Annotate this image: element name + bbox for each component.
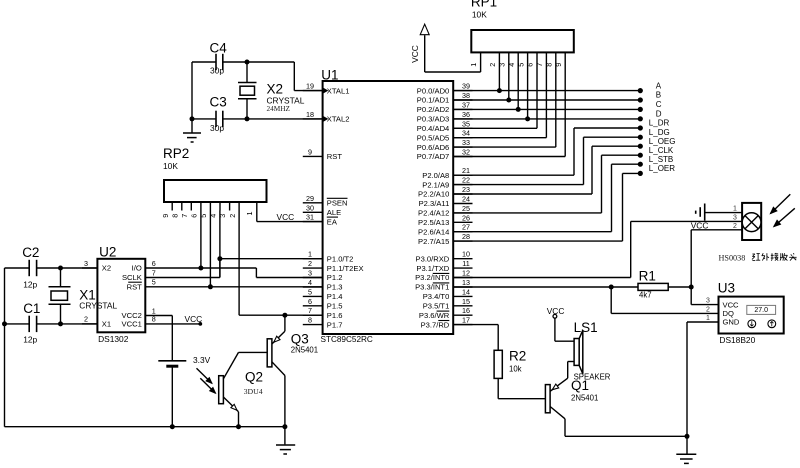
svg-text:U1: U1 xyxy=(321,68,338,83)
svg-text:CRYSTAL: CRYSTAL xyxy=(79,300,117,310)
svg-text:27: 27 xyxy=(462,223,470,232)
svg-text:P3.1/TXD: P3.1/TXD xyxy=(416,264,449,273)
svg-text:2N5401: 2N5401 xyxy=(571,393,598,402)
svg-text:4: 4 xyxy=(308,278,312,287)
svg-text:7: 7 xyxy=(180,214,189,218)
svg-text:P0.4/AD4: P0.4/AD4 xyxy=(417,124,450,133)
svg-text:P2.7/A15: P2.7/A15 xyxy=(418,237,449,246)
svg-text:P3.0/RXD: P3.0/RXD xyxy=(416,254,450,263)
svg-text:17: 17 xyxy=(462,316,470,325)
svg-text:10k: 10k xyxy=(509,365,522,374)
svg-text:6: 6 xyxy=(190,214,199,218)
svg-text:L_DR: L_DR xyxy=(649,119,670,128)
svg-text:3: 3 xyxy=(308,269,312,278)
svg-text:2: 2 xyxy=(308,259,312,268)
svg-text:6: 6 xyxy=(152,259,156,268)
svg-text:L_OER: L_OER xyxy=(649,164,675,173)
svg-text:9: 9 xyxy=(554,63,563,67)
svg-text:13: 13 xyxy=(462,278,470,287)
svg-text:21: 21 xyxy=(462,166,470,175)
svg-text:P1.3: P1.3 xyxy=(327,283,343,292)
svg-text:L_OEG: L_OEG xyxy=(649,137,676,146)
svg-text:36: 36 xyxy=(462,110,470,119)
svg-text:22: 22 xyxy=(462,176,470,185)
svg-text:26: 26 xyxy=(462,213,470,222)
svg-text:12p: 12p xyxy=(23,335,37,345)
svg-text:X2: X2 xyxy=(267,82,284,97)
svg-text:VCC: VCC xyxy=(277,212,295,222)
svg-text:Q2: Q2 xyxy=(245,370,263,385)
svg-text:ALE: ALE xyxy=(327,208,341,217)
svg-text:27.0: 27.0 xyxy=(754,307,768,314)
svg-text:7: 7 xyxy=(152,268,156,277)
svg-text:P2.4/A12: P2.4/A12 xyxy=(418,209,449,218)
svg-text:P0.3/AD3: P0.3/AD3 xyxy=(417,115,450,124)
svg-text:B: B xyxy=(656,91,661,100)
svg-text:P0.5/AD5: P0.5/AD5 xyxy=(417,133,450,142)
svg-text:R1: R1 xyxy=(639,269,656,284)
svg-text:4: 4 xyxy=(507,63,516,67)
svg-text:X1: X1 xyxy=(102,320,111,329)
svg-text:11: 11 xyxy=(462,259,469,268)
svg-text:R2: R2 xyxy=(509,348,526,363)
svg-text:24: 24 xyxy=(462,195,470,204)
svg-text:P3.3/INT1: P3.3/INT1 xyxy=(415,283,449,292)
svg-text:P2.1/A9: P2.1/A9 xyxy=(422,180,449,189)
svg-text:3: 3 xyxy=(733,214,737,221)
svg-text:2: 2 xyxy=(488,63,497,67)
svg-text:VCC1: VCC1 xyxy=(122,320,142,329)
svg-text:RP2: RP2 xyxy=(163,146,189,161)
svg-text:7: 7 xyxy=(308,306,312,315)
svg-text:P2.0/A8: P2.0/A8 xyxy=(422,171,449,180)
svg-text:RST: RST xyxy=(327,152,343,161)
svg-text:A: A xyxy=(656,81,662,90)
svg-text:2: 2 xyxy=(228,214,237,218)
svg-text:SCLK: SCLK xyxy=(122,273,142,282)
svg-text:5: 5 xyxy=(308,287,312,296)
svg-text:37: 37 xyxy=(462,100,470,109)
svg-text:19: 19 xyxy=(306,82,314,91)
svg-text:C3: C3 xyxy=(210,95,227,110)
svg-text:1: 1 xyxy=(469,63,478,67)
svg-text:10: 10 xyxy=(462,250,470,259)
svg-text:34: 34 xyxy=(462,129,470,138)
svg-text:10K: 10K xyxy=(163,161,178,171)
svg-text:23: 23 xyxy=(462,185,470,194)
svg-text:2: 2 xyxy=(84,315,88,324)
svg-text:RP1: RP1 xyxy=(471,0,497,9)
svg-text:PSEN: PSEN xyxy=(327,199,348,208)
svg-text:25: 25 xyxy=(462,204,470,213)
svg-text:Q1: Q1 xyxy=(571,378,589,393)
svg-text:P3.7/RD: P3.7/RD xyxy=(421,320,450,329)
svg-text:P1.1/T2EX: P1.1/T2EX xyxy=(327,264,364,273)
svg-text:30: 30 xyxy=(306,203,314,212)
svg-text:VCC: VCC xyxy=(723,300,740,309)
svg-text:RST: RST xyxy=(127,283,143,292)
svg-text:12: 12 xyxy=(462,269,470,278)
svg-text:L_STB: L_STB xyxy=(649,155,673,164)
svg-text:1: 1 xyxy=(706,315,710,322)
svg-text:DS1302: DS1302 xyxy=(98,334,129,344)
svg-text:C4: C4 xyxy=(210,41,228,56)
svg-text:3.3V: 3.3V xyxy=(193,355,211,365)
svg-text:LS1: LS1 xyxy=(574,320,598,335)
svg-text:8: 8 xyxy=(308,316,312,325)
svg-text:P0.7/AD7: P0.7/AD7 xyxy=(417,152,450,161)
svg-text:35: 35 xyxy=(462,119,470,128)
svg-text:P3.2/INT0: P3.2/INT0 xyxy=(415,273,449,282)
svg-text:GND: GND xyxy=(723,318,740,327)
svg-text:D: D xyxy=(656,110,662,119)
svg-text:5: 5 xyxy=(516,63,525,67)
svg-text:1: 1 xyxy=(308,250,312,259)
svg-text:P2.5/A13: P2.5/A13 xyxy=(418,218,449,227)
svg-text:STC89C52RC: STC89C52RC xyxy=(321,335,373,344)
svg-text:2N5401: 2N5401 xyxy=(291,345,318,354)
svg-text:VCC: VCC xyxy=(691,221,709,231)
svg-text:L_CLK: L_CLK xyxy=(649,146,674,155)
svg-text:P3.5/T1: P3.5/T1 xyxy=(423,302,450,311)
svg-text:X2: X2 xyxy=(102,264,111,273)
svg-text:3: 3 xyxy=(84,259,88,268)
svg-text:9: 9 xyxy=(161,214,170,218)
svg-text:30p: 30p xyxy=(210,123,224,133)
svg-text:P0.0/AD0: P0.0/AD0 xyxy=(417,86,450,95)
svg-text:8: 8 xyxy=(171,214,180,218)
svg-text:15: 15 xyxy=(462,297,470,306)
svg-text:14: 14 xyxy=(462,287,470,296)
svg-text:3DU4: 3DU4 xyxy=(244,387,263,396)
svg-text:HS0038: HS0038 xyxy=(719,254,746,263)
svg-text:6: 6 xyxy=(526,63,535,67)
svg-text:31: 31 xyxy=(306,213,314,222)
svg-text:2: 2 xyxy=(733,223,737,230)
svg-text:33: 33 xyxy=(462,138,470,147)
svg-text:C2: C2 xyxy=(22,245,39,260)
svg-text:U2: U2 xyxy=(99,245,116,260)
svg-text:4k7: 4k7 xyxy=(639,291,652,300)
svg-text:8: 8 xyxy=(545,63,554,67)
svg-text:P2.2/A10: P2.2/A10 xyxy=(418,190,449,199)
svg-text:P1.2: P1.2 xyxy=(327,273,343,282)
svg-text:8: 8 xyxy=(152,315,156,324)
svg-text:5: 5 xyxy=(152,278,156,287)
svg-text:P1.4: P1.4 xyxy=(327,292,343,301)
svg-text:39: 39 xyxy=(462,82,470,91)
svg-text:9: 9 xyxy=(308,147,312,156)
svg-text:6: 6 xyxy=(308,297,312,306)
svg-text:P0.1/AD1: P0.1/AD1 xyxy=(417,96,450,105)
svg-text:C1: C1 xyxy=(23,301,40,316)
svg-text:2: 2 xyxy=(706,306,710,313)
svg-text:18: 18 xyxy=(306,110,314,119)
svg-text:P2.3/A11: P2.3/A11 xyxy=(419,199,450,208)
svg-text:EA: EA xyxy=(327,217,338,226)
svg-text:L_DG: L_DG xyxy=(649,128,670,137)
svg-text:29: 29 xyxy=(306,194,314,203)
svg-text:12p: 12p xyxy=(23,280,37,290)
svg-text:P1.6: P1.6 xyxy=(327,311,343,320)
svg-text:38: 38 xyxy=(462,91,470,100)
svg-text:C: C xyxy=(656,100,662,109)
svg-text:3: 3 xyxy=(498,63,507,67)
svg-text:P0.2/AD2: P0.2/AD2 xyxy=(417,105,450,114)
svg-text:VCC: VCC xyxy=(410,45,420,63)
svg-text:1: 1 xyxy=(733,206,737,213)
svg-text:P1.7: P1.7 xyxy=(327,320,343,329)
svg-text:7: 7 xyxy=(535,63,544,67)
svg-text:XTAL1: XTAL1 xyxy=(327,86,350,95)
svg-text:U3: U3 xyxy=(718,281,735,296)
svg-text:XTAL2: XTAL2 xyxy=(327,115,350,124)
svg-text:10K: 10K xyxy=(472,10,487,20)
svg-text:P1.0/T2: P1.0/T2 xyxy=(327,254,354,263)
svg-text:P2.6/A14: P2.6/A14 xyxy=(418,227,449,236)
svg-text:P0.6/AD6: P0.6/AD6 xyxy=(417,143,450,152)
svg-text:P3.6/WR: P3.6/WR xyxy=(419,311,450,320)
svg-text:28: 28 xyxy=(462,232,470,241)
svg-text:P1.5: P1.5 xyxy=(327,302,343,311)
svg-text:32: 32 xyxy=(462,148,470,157)
svg-text:Q3: Q3 xyxy=(291,332,309,347)
svg-text:1: 1 xyxy=(245,212,254,216)
svg-text:30p: 30p xyxy=(210,66,224,76)
svg-text:DS18B20: DS18B20 xyxy=(719,335,755,345)
svg-text:VCC: VCC xyxy=(185,314,203,324)
svg-text:16: 16 xyxy=(462,306,470,315)
svg-text:24MHZ: 24MHZ xyxy=(267,104,291,113)
svg-text:3: 3 xyxy=(706,298,710,305)
svg-text:P3.4/T0: P3.4/T0 xyxy=(423,292,450,301)
svg-text:I/O: I/O xyxy=(132,264,142,273)
